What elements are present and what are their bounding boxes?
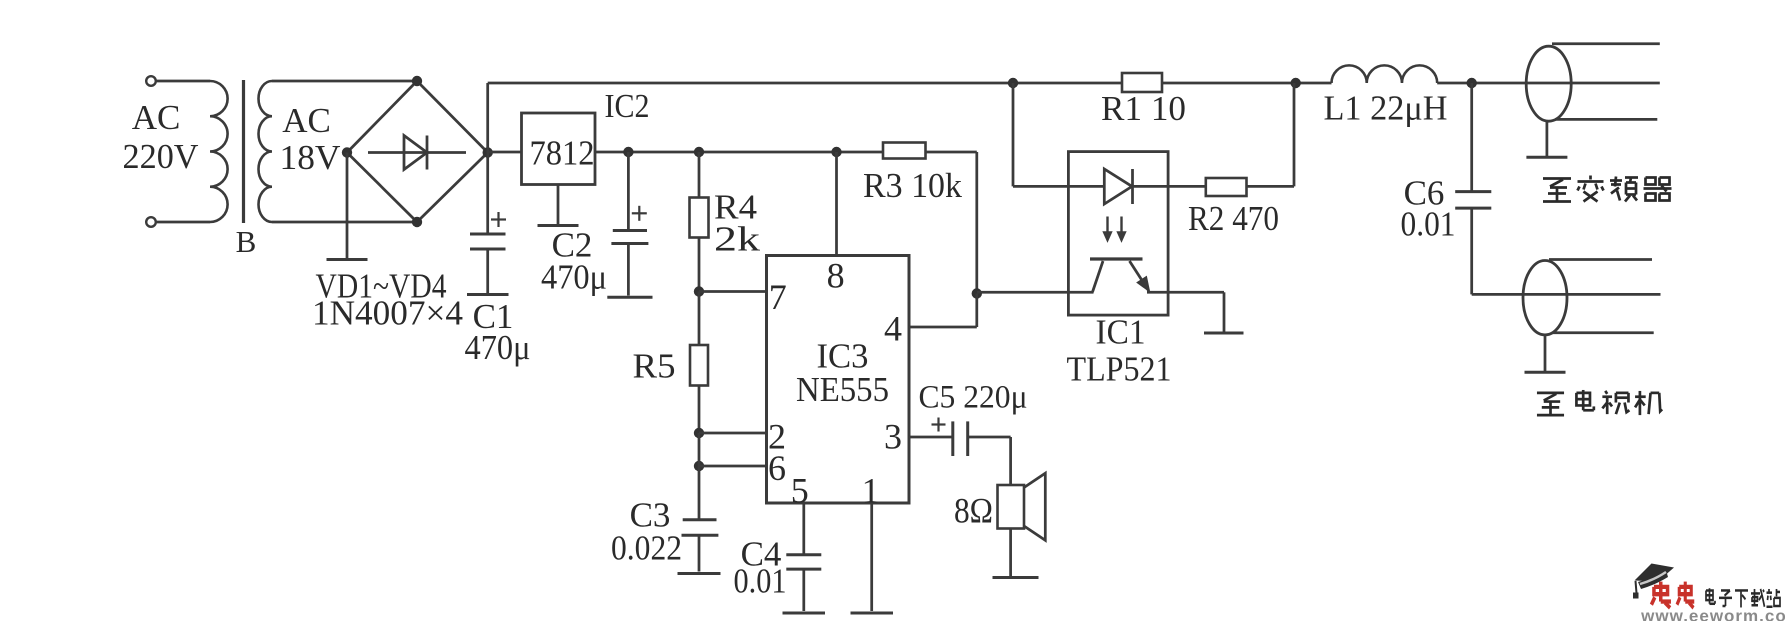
svg-text:470μ: 470μ bbox=[541, 258, 607, 297]
svg-text:L1 22μH: L1 22μH bbox=[1324, 89, 1448, 128]
svg-text:AC: AC bbox=[132, 98, 181, 137]
svg-text:4: 4 bbox=[884, 309, 902, 349]
svg-text:R5: R5 bbox=[633, 347, 676, 386]
svg-text:0.01: 0.01 bbox=[1401, 205, 1456, 244]
svg-text:18V: 18V bbox=[280, 138, 341, 177]
svg-text:AC: AC bbox=[282, 101, 331, 140]
svg-text:TLP521: TLP521 bbox=[1067, 350, 1172, 389]
svg-text:R2 470: R2 470 bbox=[1188, 199, 1279, 238]
svg-text:0.01: 0.01 bbox=[734, 562, 787, 601]
svg-text:7812: 7812 bbox=[530, 134, 595, 173]
svg-text:8: 8 bbox=[827, 256, 845, 296]
svg-text:IC2: IC2 bbox=[605, 88, 650, 125]
svg-text:0.022: 0.022 bbox=[611, 529, 682, 568]
svg-text:6: 6 bbox=[768, 448, 786, 488]
svg-text:R3 10k: R3 10k bbox=[863, 166, 962, 205]
svg-text:470μ: 470μ bbox=[465, 328, 531, 367]
svg-text:8Ω: 8Ω bbox=[954, 491, 993, 531]
svg-text:2k: 2k bbox=[714, 220, 761, 259]
svg-text:B: B bbox=[236, 224, 257, 259]
svg-text:1N4007×4: 1N4007×4 bbox=[312, 294, 463, 333]
svg-text:5: 5 bbox=[791, 471, 809, 511]
svg-text:NE555: NE555 bbox=[796, 370, 889, 409]
svg-text:IC1: IC1 bbox=[1096, 313, 1146, 352]
svg-text:R1 10: R1 10 bbox=[1101, 89, 1186, 128]
svg-text:3: 3 bbox=[884, 417, 902, 457]
svg-text:220V: 220V bbox=[123, 137, 199, 176]
svg-text:7: 7 bbox=[769, 277, 787, 317]
svg-text:www.eeworm.com: www.eeworm.com bbox=[1640, 607, 1785, 621]
svg-text:C5 220μ: C5 220μ bbox=[919, 380, 1028, 416]
